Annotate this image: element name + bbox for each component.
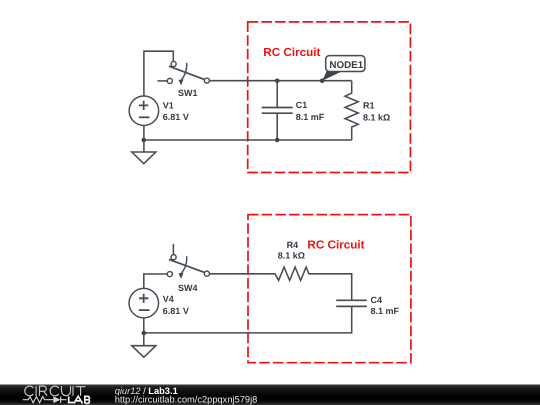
svg-text:SW4: SW4 [178, 283, 198, 293]
svg-text:V1: V1 [163, 100, 174, 110]
svg-text:6.81 V: 6.81 V [163, 112, 189, 122]
svg-text:8.1 kΩ: 8.1 kΩ [363, 113, 390, 123]
svg-text:R1: R1 [363, 101, 375, 111]
svg-text:R4: R4 [287, 240, 299, 250]
svg-text:SW1: SW1 [178, 88, 198, 98]
svg-text:RC Circuit: RC Circuit [263, 46, 320, 59]
svg-text:NODE1: NODE1 [329, 60, 363, 71]
svg-text:RC Circuit: RC Circuit [307, 239, 364, 252]
svg-text:8.1 kΩ: 8.1 kΩ [278, 251, 305, 261]
svg-text:http://circuitlab.com/c2ppqxnj: http://circuitlab.com/c2ppqxnj579j8 [115, 394, 258, 404]
svg-text:V4: V4 [163, 294, 174, 304]
svg-text:6.81 V: 6.81 V [163, 306, 189, 316]
svg-text:C4: C4 [371, 295, 383, 305]
svg-text:8.1 mF: 8.1 mF [371, 306, 400, 316]
svg-text:C1: C1 [296, 100, 308, 110]
svg-text:8.1 mF: 8.1 mF [296, 112, 325, 122]
